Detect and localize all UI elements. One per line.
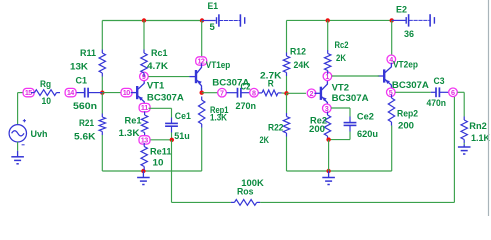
label C1 (76, 76, 88, 87)
label VT2ep (393, 59, 418, 70)
svg-text:5.6K: 5.6K (74, 132, 96, 143)
ground Rn2 (458, 145, 471, 155)
svg-text:R21: R21 (79, 118, 95, 129)
value Rep2 200 (398, 121, 414, 132)
svg-text:560n: 560n (73, 101, 97, 112)
capacitor C3 (431, 87, 449, 97)
wire feedback up to output (453, 96, 455, 203)
value Ros 100K (241, 178, 264, 189)
node 5 (VT2ep emitter) (387, 88, 396, 97)
svg-text:Ros: Ros (237, 187, 254, 198)
label Rc2 (335, 40, 349, 51)
svg-text:6: 6 (451, 88, 455, 97)
capacitor C1 (77, 88, 103, 98)
svg-text:470n: 470n (427, 98, 447, 109)
label R11 (80, 48, 97, 59)
junction C1/R11/R21/base (100, 91, 104, 95)
transistor VT2 (314, 80, 327, 106)
svg-text:Rc2: Rc2 (335, 40, 349, 51)
label Ros (237, 187, 254, 198)
svg-text:VT1: VT1 (147, 80, 165, 91)
value R21 5.6K (74, 132, 96, 143)
battery E2 (392, 14, 435, 26)
svg-text:2K: 2K (260, 135, 270, 146)
junction VT1ep emitter/Rep1/C2 (200, 91, 204, 95)
wire Uvh to node 15 (18, 93, 23, 125)
wire bottom rail 2 (ground rail) (287, 170, 392, 172)
value R22 2K (260, 135, 270, 146)
wire R21 bottom to rail (101, 135, 103, 171)
wire Ce1 bottom to node 13 (151, 133, 172, 140)
svg-text:R12: R12 (290, 47, 306, 58)
svg-text:1.3K: 1.3K (119, 128, 140, 139)
svg-text:Ce2: Ce2 (357, 112, 374, 123)
wire Rep1 bottom to rail (201, 128, 203, 172)
source Uvh (9, 119, 26, 145)
svg-text:Re11: Re11 (150, 146, 172, 157)
node 6 (output) (449, 88, 458, 97)
junction E2/rail (390, 18, 394, 22)
resistor Rep2 (388, 95, 394, 126)
wire Rep2 bottom to rail (391, 126, 393, 172)
label Uvh (31, 129, 48, 140)
label VT1 BC307A (147, 93, 184, 104)
svg-text:10: 10 (42, 96, 52, 107)
node 13 (139, 136, 150, 145)
svg-text:Rep2: Rep2 (397, 109, 418, 120)
value Ce1 51u (174, 131, 190, 142)
svg-text:10: 10 (153, 157, 164, 168)
resistor Rc1 (141, 50, 147, 77)
wire node 4 column (391, 20, 393, 54)
capacitor Ce1 (165, 118, 178, 133)
label Re11 (150, 146, 172, 157)
wire VT1ep emitter to junction (201, 88, 203, 93)
svg-text:VT2ep: VT2ep (393, 59, 418, 70)
wire feedback bottom right (260, 201, 454, 203)
wire node 12 column (201, 21, 203, 57)
wire Uvh bottom (17, 142, 19, 151)
wire bottom rail 1 (ground rail) (102, 170, 201, 172)
svg-text:Rg: Rg (40, 79, 51, 90)
value R12 24K (294, 60, 310, 71)
resistor Rg (31, 90, 60, 96)
svg-text:11: 11 (141, 103, 148, 112)
svg-text:Re1: Re1 (125, 115, 143, 126)
ground rail 1 (137, 171, 150, 185)
capacitor C2 (227, 88, 250, 98)
node 1 (VT2 collector) (323, 72, 332, 81)
label C2 (241, 81, 251, 92)
junction Rc1/rail (142, 18, 146, 22)
wire feedback bottom left (172, 201, 231, 203)
svg-text:1.1K: 1.1K (471, 133, 490, 144)
svg-text:13K: 13K (70, 62, 88, 73)
label C3 (434, 76, 445, 87)
wire top rail 1 (E1 positive rail) (102, 20, 202, 22)
label R (268, 79, 274, 90)
svg-text:2: 2 (310, 89, 314, 98)
svg-text:200: 200 (398, 121, 414, 132)
label Rep1 (210, 105, 229, 116)
resistor R11 (99, 50, 105, 77)
label Rc1 (151, 48, 168, 59)
svg-text:E1: E1 (208, 1, 219, 12)
wire node11 to Ce1 top (149, 108, 172, 117)
node 12 (VT1ep collector) (196, 57, 207, 66)
label R22 (268, 123, 284, 134)
node 3 (VT2 emitter) (323, 104, 332, 113)
label E1 (208, 1, 219, 12)
resistor Rc2 (325, 50, 331, 74)
resistor Re2 (324, 112, 330, 140)
label Rep2 (397, 109, 418, 120)
resistor Ros (231, 200, 260, 206)
svg-text:200: 200 (309, 124, 325, 135)
svg-text:Rc1: Rc1 (151, 48, 168, 59)
svg-text:10: 10 (123, 88, 130, 97)
node 9 (VT1 collector) (140, 72, 149, 81)
node 10 (121, 88, 132, 97)
svg-text:Rn2: Rn2 (469, 121, 487, 132)
value C3 470n (427, 98, 447, 109)
svg-text:C1: C1 (76, 76, 88, 87)
resistor Re1 (141, 112, 147, 137)
node 2 (307, 89, 316, 98)
value E1 5 (210, 22, 216, 33)
capacitor Ce2 (344, 117, 357, 132)
wire Re2 junction down to rail (328, 140, 330, 171)
svg-text:24K: 24K (294, 60, 310, 71)
label R21 (79, 118, 95, 129)
wire R to stage2 junction (282, 92, 287, 94)
ground Uvh (11, 151, 24, 164)
resistor R (2.7K) (259, 90, 282, 96)
value Rc1 4.7K (147, 61, 168, 72)
junction E1/rail (200, 18, 204, 22)
value Rep1 1.3K (210, 112, 227, 123)
svg-text:VT2: VT2 (332, 83, 349, 94)
wire node5 to C3 (395, 91, 431, 93)
svg-text:E2: E2 (396, 4, 407, 15)
junction R/R12/R22/base VT2 (284, 91, 288, 95)
wire R11 column top (101, 21, 103, 50)
label VT2ep BC307A (392, 80, 429, 91)
svg-text:8: 8 (252, 88, 256, 97)
transistor VT2ep (378, 63, 392, 89)
svg-text:R11: R11 (80, 48, 97, 59)
svg-text:C2: C2 (241, 81, 251, 92)
node 4 (VT2ep collector) (387, 55, 396, 64)
label Rg (40, 79, 51, 90)
wire node9 to VT1ep base (148, 76, 189, 78)
value Rc2 2K (336, 53, 346, 64)
wire R22 column top (286, 93, 288, 113)
svg-text:4.7K: 4.7K (147, 61, 168, 72)
resistor Re11 (141, 143, 147, 170)
label E2 (396, 4, 407, 15)
svg-text:Uvh: Uvh (31, 129, 48, 140)
node 11 (VT1 emitter) (139, 103, 150, 112)
svg-text:C3: C3 (434, 76, 445, 87)
svg-text:620u: 620u (357, 129, 378, 140)
value E2 36 (404, 29, 414, 40)
wire base VT1 (102, 92, 120, 94)
svg-text:2K: 2K (336, 53, 346, 64)
label Ce1 (175, 111, 192, 122)
node 15 (23, 88, 34, 97)
value Re11 10 (153, 157, 164, 168)
window border right (488, 0, 490, 216)
transistor VT1 (131, 79, 145, 105)
junction ground/rail1 (141, 169, 145, 173)
value Ce2 620u (357, 129, 378, 140)
svg-text:BC307A: BC307A (332, 93, 369, 104)
label VT2 (332, 83, 349, 94)
value Re1 1.3K (119, 128, 140, 139)
node 7 (218, 88, 227, 97)
junction Ce1/node13/feedback (170, 138, 174, 142)
resistor Rep1 (199, 97, 205, 128)
label Ce2 (357, 112, 374, 123)
resistor Rn2 (461, 117, 467, 144)
svg-text:7: 7 (220, 88, 224, 97)
label VT1ep (206, 60, 231, 71)
wire node1 to VT2ep base (332, 75, 380, 77)
transistor VT1ep (190, 63, 202, 89)
node 8 (250, 88, 259, 97)
node 14 (65, 88, 76, 97)
wire base VT2 (287, 92, 307, 94)
svg-text:R: R (268, 79, 274, 90)
svg-text:BC307A: BC307A (147, 93, 184, 104)
resistor R12 (283, 53, 289, 77)
svg-text:270n: 270n (236, 101, 257, 112)
junction Rc2/rail (326, 18, 330, 22)
wire R11 bottom to base junction (101, 77, 103, 93)
label Rn2 (469, 121, 487, 132)
wire junction to node 7 (202, 92, 218, 94)
junction ground/rail2 (326, 169, 330, 173)
svg-text:1.3K: 1.3K (210, 112, 227, 123)
svg-text:5: 5 (389, 88, 393, 97)
wire feedback down from node 13 junction (171, 140, 173, 203)
svg-text:51u: 51u (174, 131, 190, 142)
svg-text:VT1ep: VT1ep (206, 60, 231, 71)
svg-text:R22: R22 (268, 123, 284, 134)
label VT1ep BC307A (212, 77, 249, 88)
wire Rn2 bottom (463, 143, 465, 145)
wire node3 to Ce2 top (331, 108, 350, 117)
battery E1 (202, 14, 245, 26)
value C1 560n (73, 101, 97, 112)
label Re2 (310, 115, 327, 126)
value Rn2 1.1K (471, 133, 490, 144)
wire R21 column top (101, 93, 103, 114)
wire R12 column top (286, 20, 288, 52)
svg-text:Ce1: Ce1 (175, 111, 192, 122)
wire Rc2 column top (327, 20, 329, 50)
svg-text:3: 3 (325, 104, 329, 113)
wire R22 bottom to rail (286, 137, 288, 172)
value Re2 200 (309, 124, 325, 135)
label VT1 (147, 80, 165, 91)
value C2 270n (236, 101, 257, 112)
wire node6 to Rn2 corner (458, 92, 465, 116)
label R12 (290, 47, 306, 58)
wire Rc1 column top (143, 21, 145, 50)
resistor R21 (99, 114, 105, 136)
svg-text:BC307A: BC307A (392, 80, 429, 91)
wire Ce2 bottom to Re2 junction (329, 132, 350, 140)
label Re1 (125, 115, 143, 126)
label VT2 BC307A (332, 93, 369, 104)
svg-text:14: 14 (67, 88, 74, 97)
value Rg 10 (42, 96, 52, 107)
svg-text:5: 5 (210, 22, 216, 33)
ground rail 2 (322, 171, 335, 185)
junction Re2/Ce2/rail2 (326, 137, 330, 141)
value R 2.7K (260, 71, 282, 82)
wire top rail 2 (E2 positive rail) (287, 19, 392, 21)
value R11 13K (70, 62, 88, 73)
resistor R22 (283, 113, 289, 137)
wire R12 bottom to base junction (286, 76, 288, 93)
svg-text:36: 36 (404, 29, 414, 40)
